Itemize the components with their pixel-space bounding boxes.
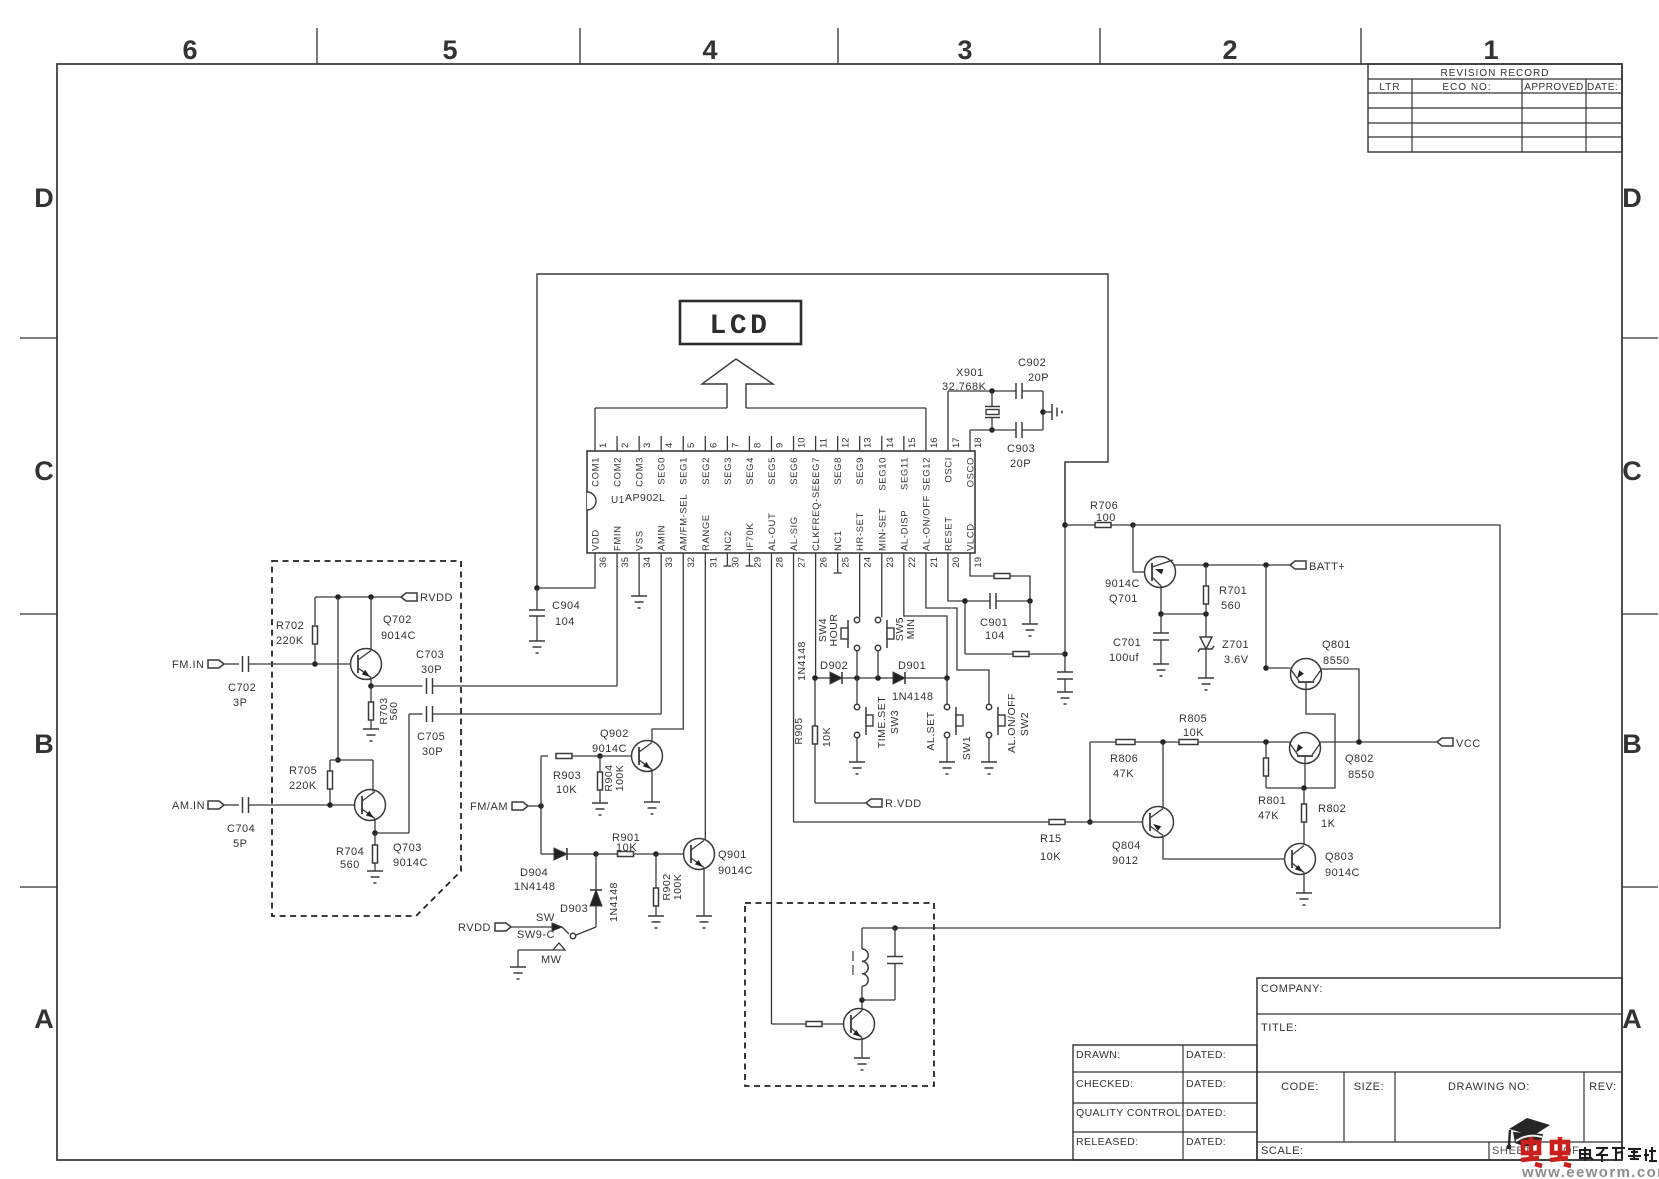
wire Q701 emitter node xyxy=(1160,586,1162,614)
switch SW5 MIN xyxy=(875,617,880,622)
svg-text:BATT+: BATT+ xyxy=(1309,561,1345,573)
svg-text:220K: 220K xyxy=(289,780,317,792)
U1 top pin 4 SEG0 xyxy=(660,436,662,451)
svg-text:AL.ON/OFF: AL.ON/OFF xyxy=(1006,693,1018,753)
svg-text:VDD: VDD xyxy=(591,529,602,551)
svg-text:RANGE: RANGE xyxy=(701,514,712,551)
U1 top pin 6 SEG2 xyxy=(704,436,706,451)
capacitor C701 xyxy=(1160,614,1162,633)
svg-text:10K: 10K xyxy=(821,727,833,747)
svg-text:2: 2 xyxy=(620,443,631,448)
svg-text:12: 12 xyxy=(841,437,852,448)
svg-text:FM/AM: FM/AM xyxy=(470,801,508,813)
node R801-R802-Q802-Q801 xyxy=(1301,785,1307,791)
resistor R805 xyxy=(1179,740,1198,745)
wire VCC left end to Q804 base node xyxy=(1089,742,1091,822)
svg-text:31: 31 xyxy=(708,557,719,568)
capacitor C902 xyxy=(1015,383,1017,399)
svg-text:R905: R905 xyxy=(793,717,805,744)
wire SW5 to D901 node xyxy=(877,651,879,678)
svg-text:30P: 30P xyxy=(421,664,442,676)
wire Q804 collector xyxy=(1162,742,1164,809)
svg-text:9014C: 9014C xyxy=(1105,578,1140,590)
svg-text:C704: C704 xyxy=(227,823,255,835)
svg-text:APPROVED: APPROVED xyxy=(1524,82,1584,93)
svg-text:NC2: NC2 xyxy=(723,530,734,551)
capacitor at VLCD net xyxy=(1057,671,1073,673)
svg-text:SEG0: SEG0 xyxy=(657,457,668,485)
capacitor C704 xyxy=(224,804,239,806)
svg-text:5P: 5P xyxy=(233,838,247,850)
svg-text:AL.SET: AL.SET xyxy=(925,711,937,750)
transistor Q701 9014C xyxy=(1132,525,1134,572)
svg-text:RELEASED:: RELEASED: xyxy=(1076,1136,1139,1148)
switch SW4 HOUR xyxy=(854,617,859,622)
resistor R706 xyxy=(1065,524,1095,526)
LCD arrow xyxy=(702,359,773,408)
wire oscillator emitter xyxy=(861,1038,863,1059)
svg-text:100K: 100K xyxy=(672,874,684,901)
terminal R.VDD xyxy=(815,802,866,804)
terminal RVDD top xyxy=(401,593,417,601)
wire BATT+ line xyxy=(1173,564,1290,566)
wire LCD bus xyxy=(595,407,727,409)
svg-text:DRAWN:: DRAWN: xyxy=(1076,1049,1121,1061)
svg-text:33: 33 xyxy=(664,557,675,568)
wire Q702 emitter node xyxy=(370,678,372,687)
svg-text:AM/FM-SEL: AM/FM-SEL xyxy=(679,494,690,551)
wire pin24 HR-SET to SW4 xyxy=(859,553,861,617)
resistor R901 xyxy=(596,853,617,855)
svg-text:1: 1 xyxy=(598,443,609,448)
transistor Q703 9014C xyxy=(355,790,386,821)
capacitor C703 xyxy=(371,685,423,687)
svg-text:8: 8 xyxy=(752,443,763,448)
svg-text:2: 2 xyxy=(1222,35,1237,65)
switch MW contact xyxy=(553,943,565,950)
U1 top pin 13 SEG9 xyxy=(859,436,861,451)
svg-text:9012: 9012 xyxy=(1112,855,1138,867)
wire Q803 emitter xyxy=(1303,873,1305,894)
svg-text:AL-DISP: AL-DISP xyxy=(899,510,910,551)
resistor R701 xyxy=(1205,565,1207,586)
wire Q702 collector xyxy=(370,597,372,651)
svg-text:R802: R802 xyxy=(1318,803,1346,815)
svg-text:30: 30 xyxy=(730,557,741,568)
svg-text:D903: D903 xyxy=(560,903,588,915)
wire Q804 emitter to Q803 base xyxy=(1163,836,1285,860)
svg-text:DATED:: DATED: xyxy=(1186,1049,1226,1061)
switch SW2 AL.ON/OFF xyxy=(986,704,991,709)
svg-text:15: 15 xyxy=(907,437,918,448)
svg-text:3.6V: 3.6V xyxy=(1224,654,1249,666)
svg-text:AP902L: AP902L xyxy=(625,492,665,504)
svg-text:104: 104 xyxy=(555,616,575,628)
U1 top pin 7 SEG3 xyxy=(726,436,728,451)
diode D901 1N4148 xyxy=(857,677,893,679)
ground below Z701 xyxy=(1198,677,1214,679)
transistor Q801 8550 xyxy=(1291,659,1322,690)
svg-text:R706: R706 xyxy=(1090,500,1118,512)
svg-text:104: 104 xyxy=(985,630,1005,642)
capacitor C702 xyxy=(224,663,239,665)
U1 top pin 15 SEG11 xyxy=(903,436,905,451)
svg-text:9014C: 9014C xyxy=(718,865,753,877)
svg-text:MIN-SET: MIN-SET xyxy=(877,508,888,551)
svg-text:9014C: 9014C xyxy=(381,630,416,642)
node Q702 base xyxy=(312,661,318,667)
svg-text:D: D xyxy=(34,183,54,213)
wire pin32 AM/FM-SEL to Q902 collector xyxy=(652,553,683,743)
svg-text:CHECKED:: CHECKED: xyxy=(1076,1078,1133,1090)
resistor R905 xyxy=(814,678,816,727)
resistor R902 xyxy=(655,854,657,888)
svg-text:Q902: Q902 xyxy=(600,728,629,740)
ground below Q901 xyxy=(696,915,712,917)
resistor R801 xyxy=(1265,742,1267,758)
svg-text:SEG2: SEG2 xyxy=(701,457,712,485)
svg-text:SEG11: SEG11 xyxy=(899,457,910,490)
svg-text:3: 3 xyxy=(957,35,972,65)
wire Q801 right lead to VCC xyxy=(1322,669,1360,742)
ground below SW1 xyxy=(939,761,955,763)
resistor R15 xyxy=(1049,820,1065,825)
svg-text:SCALE:: SCALE: xyxy=(1261,1145,1304,1157)
U1 top pin 14 SEG10 xyxy=(881,436,883,451)
svg-text:1K: 1K xyxy=(1321,818,1336,830)
svg-text:Q702: Q702 xyxy=(383,614,412,626)
wire R15 to Q804 base xyxy=(1065,821,1090,823)
resistor oscillator base xyxy=(806,1022,822,1027)
svg-text:VLCD: VLCD xyxy=(966,523,977,551)
capacitor oscillator tank xyxy=(892,925,898,931)
svg-text:FM.IN: FM.IN xyxy=(172,659,204,671)
svg-text:TITLE:: TITLE: xyxy=(1261,1022,1298,1034)
wire pin36 VDD xyxy=(537,553,595,588)
svg-text:3P: 3P xyxy=(233,697,247,709)
node R905-D902 xyxy=(812,675,818,681)
svg-text:SEG8: SEG8 xyxy=(833,457,844,485)
svg-text:10K: 10K xyxy=(556,784,577,796)
resistor R904 xyxy=(599,756,601,772)
svg-text:Q703: Q703 xyxy=(393,842,422,854)
svg-text:AL-OUT: AL-OUT xyxy=(767,513,778,551)
svg-text:TIME.SET: TIME.SET xyxy=(876,696,888,749)
svg-text:8550: 8550 xyxy=(1323,655,1349,667)
svg-text:B: B xyxy=(1622,729,1642,759)
svg-text:9: 9 xyxy=(774,443,785,448)
svg-text:5: 5 xyxy=(442,35,457,65)
svg-text:6: 6 xyxy=(182,35,197,65)
U1 top pin 5 SEG1 xyxy=(682,436,684,451)
wire Q902 emitter xyxy=(651,770,653,803)
svg-text:C702: C702 xyxy=(228,682,256,694)
svg-text:AL-SIG: AL-SIG xyxy=(789,516,800,551)
svg-text:35: 35 xyxy=(620,557,631,568)
svg-text:9014C: 9014C xyxy=(393,857,428,869)
svg-text:32: 32 xyxy=(686,557,697,568)
capacitor C901 xyxy=(989,593,991,609)
node D904-D903-R901 xyxy=(593,851,599,857)
svg-text:COMPANY:: COMPANY: xyxy=(1261,983,1323,995)
diode D902 1N4148 xyxy=(815,677,830,679)
svg-text:B: B xyxy=(34,729,54,759)
LCD block xyxy=(680,301,801,344)
node Q703 base xyxy=(327,802,333,808)
resistor R802 xyxy=(1303,788,1305,804)
svg-text:14: 14 xyxy=(885,437,896,448)
svg-text:20P: 20P xyxy=(1028,372,1049,384)
svg-text:SW9-C: SW9-C xyxy=(517,929,555,941)
wire pin28 AL-OUT to oscillator xyxy=(770,553,772,1024)
pin25 NC1 stub xyxy=(837,553,839,573)
ground below MW xyxy=(510,966,526,968)
svg-text:220K: 220K xyxy=(276,635,304,647)
svg-text:C701: C701 xyxy=(1113,637,1141,649)
svg-text:R801: R801 xyxy=(1258,795,1286,807)
ground pin34 VSS xyxy=(638,553,640,596)
wire Q802 bottom lead xyxy=(1304,756,1306,788)
svg-text:7: 7 xyxy=(730,443,741,448)
transistor Q902 9014C xyxy=(632,741,663,772)
resistor R703 xyxy=(370,686,372,702)
wire VCC line xyxy=(1090,741,1437,743)
svg-text:C: C xyxy=(34,456,54,486)
ground below SW2 xyxy=(981,761,997,763)
wire Q703 collector xyxy=(372,760,374,792)
svg-text:C: C xyxy=(1622,456,1642,486)
svg-text:DATED:: DATED: xyxy=(1186,1107,1226,1119)
svg-text:SW1: SW1 xyxy=(961,736,973,760)
transistor Q802 8550 xyxy=(1290,733,1321,764)
transistor Q901 9014C xyxy=(684,839,715,870)
capacitor C903 xyxy=(1015,422,1017,438)
transistor Q803 9014C xyxy=(1285,844,1316,875)
svg-text:SEG12: SEG12 xyxy=(921,457,932,491)
svg-text:NC1: NC1 xyxy=(833,530,844,551)
svg-text:R903: R903 xyxy=(553,770,581,782)
svg-text:R806: R806 xyxy=(1110,753,1138,765)
svg-text:Q901: Q901 xyxy=(718,849,747,861)
svg-text:SEG5: SEG5 xyxy=(767,457,778,485)
svg-text:LTR: LTR xyxy=(1379,82,1400,93)
wire pin27 AL-SIG to R15 xyxy=(793,553,795,822)
svg-text:47K: 47K xyxy=(1113,768,1134,780)
ground at oscillator xyxy=(1043,411,1052,413)
wire pin18 OSCO xyxy=(969,430,971,451)
svg-text:21: 21 xyxy=(929,557,940,568)
wire pin26 CLKFREQ-SEL to D902 xyxy=(815,553,817,678)
resistor on VLCD line xyxy=(994,574,1010,579)
svg-text:HOUR: HOUR xyxy=(828,614,840,647)
svg-text:1: 1 xyxy=(1483,35,1498,65)
svg-text:19: 19 xyxy=(973,557,984,568)
svg-text:10: 10 xyxy=(797,437,808,448)
wire pin33 AMIN to C705 xyxy=(660,553,662,714)
svg-text:RVDD: RVDD xyxy=(458,922,491,934)
svg-text:1N4148: 1N4148 xyxy=(514,881,556,893)
transistor oscillator xyxy=(844,1009,875,1040)
svg-text:SEG3: SEG3 xyxy=(723,457,734,485)
svg-text:www.eeworm.com: www.eeworm.com xyxy=(1521,1164,1659,1179)
svg-text:22: 22 xyxy=(907,557,918,568)
svg-text:9014C: 9014C xyxy=(1325,867,1360,879)
svg-text:1N4148: 1N4148 xyxy=(892,691,934,703)
U1 top pin 3 COM3 xyxy=(638,436,640,451)
ground below R902 xyxy=(648,915,664,917)
svg-text:10K: 10K xyxy=(1040,851,1061,863)
svg-text:AMIN: AMIN xyxy=(657,525,668,551)
svg-text:LCD: LCD xyxy=(710,311,771,342)
svg-text:20P: 20P xyxy=(1010,458,1031,470)
terminal VCC xyxy=(1437,738,1453,746)
capacitor C705 xyxy=(375,832,409,834)
ground right of C901 xyxy=(1029,601,1031,624)
terminal BATT+ xyxy=(1290,561,1306,569)
svg-text:24: 24 xyxy=(863,557,874,568)
ground below oscillator xyxy=(854,1057,870,1059)
svg-text:R.VDD: R.VDD xyxy=(885,798,922,810)
svg-text:SEG9: SEG9 xyxy=(855,457,866,485)
svg-text:10K: 10K xyxy=(1183,727,1204,739)
svg-text:VSS: VSS xyxy=(635,530,646,551)
svg-text:DATED:: DATED: xyxy=(1186,1136,1226,1148)
wire pin31 RANGE to Q901 collector xyxy=(704,553,706,841)
svg-text:R15: R15 xyxy=(1040,833,1062,845)
svg-text:Q701: Q701 xyxy=(1109,593,1138,605)
svg-text:C904: C904 xyxy=(552,600,580,612)
pin30 NC2 stub xyxy=(726,553,728,566)
svg-text:18: 18 xyxy=(973,437,984,448)
svg-text:C703: C703 xyxy=(416,649,444,661)
svg-text:ECO NO:: ECO NO: xyxy=(1442,82,1491,93)
node Q902 base xyxy=(597,753,603,759)
svg-text:SEG1: SEG1 xyxy=(679,457,690,485)
node VDD junction at C904 xyxy=(534,585,540,591)
resistor R702 xyxy=(314,597,316,625)
svg-text:VCC: VCC xyxy=(1456,738,1481,750)
wire pin35 FMIN to C703 xyxy=(616,553,618,686)
svg-text:34: 34 xyxy=(642,557,653,568)
svg-text:17: 17 xyxy=(951,437,962,448)
svg-text:4: 4 xyxy=(702,35,717,65)
svg-text:100: 100 xyxy=(1096,512,1116,524)
ground below VLCD cap xyxy=(1057,691,1073,693)
dashed block FM-AM amplifier xyxy=(272,561,461,916)
switch SW3 TIME.SET xyxy=(856,678,858,704)
svg-text:DRAWING NO:: DRAWING NO: xyxy=(1448,1081,1530,1093)
svg-text:R805: R805 xyxy=(1179,713,1207,725)
wire VCC loop to oscillator tank xyxy=(895,525,1500,928)
switch SW1 AL.SET xyxy=(946,678,948,704)
ground below C904 xyxy=(529,640,545,642)
wire RVDD rail xyxy=(315,596,401,598)
svg-text:SW2: SW2 xyxy=(1019,712,1031,736)
ground below C701 xyxy=(1153,663,1169,665)
transistor Q702 9014C xyxy=(351,649,382,680)
svg-text:DATED:: DATED: xyxy=(1186,1078,1226,1090)
wire pin23 MIN-SET to SW5 xyxy=(881,553,883,617)
U1 top pin 11 SEG7 xyxy=(815,436,817,451)
svg-text:9014C: 9014C xyxy=(592,743,627,755)
svg-text:REV:: REV: xyxy=(1589,1081,1617,1093)
diode D904 1N4148 xyxy=(541,853,554,855)
wire BATT+ to Q801 xyxy=(1265,565,1267,668)
svg-text:1N4148: 1N4148 xyxy=(796,641,808,681)
wire oscillator collector xyxy=(861,1000,863,1011)
ground below R704 xyxy=(367,870,383,872)
svg-text:DATE:: DATE: xyxy=(1587,82,1618,93)
svg-text:11: 11 xyxy=(819,438,830,448)
svg-text:CLKFREQ-SEL: CLKFREQ-SEL xyxy=(811,478,822,551)
svg-text:COM2: COM2 xyxy=(613,457,624,487)
svg-text:QUALITY CONTROL:: QUALITY CONTROL: xyxy=(1076,1107,1184,1119)
svg-text:4: 4 xyxy=(664,443,675,448)
svg-text:Q801: Q801 xyxy=(1322,639,1351,651)
ground below R904 xyxy=(592,802,608,804)
svg-text:RVDD: RVDD xyxy=(420,592,453,604)
wire pin19 VLCD xyxy=(970,553,994,576)
ground below Q902 xyxy=(644,801,660,803)
svg-text:D902: D902 xyxy=(820,660,848,672)
svg-text:COM1: COM1 xyxy=(591,457,602,487)
svg-text:100uf: 100uf xyxy=(1109,652,1139,664)
svg-text:SEG4: SEG4 xyxy=(745,457,756,485)
U1 top pin 2 COM2 xyxy=(616,436,618,451)
crystal X901 xyxy=(947,391,949,451)
svg-text:Z701: Z701 xyxy=(1222,639,1249,651)
wire VLCD net down right side xyxy=(1064,462,1066,672)
svg-text:MIN: MIN xyxy=(905,619,917,640)
U1 top pin 12 SEG8 xyxy=(837,436,839,451)
svg-text:SW: SW xyxy=(536,912,555,924)
svg-text:SW3: SW3 xyxy=(889,710,901,734)
svg-text:RESET: RESET xyxy=(943,516,954,551)
resistor R705 xyxy=(337,597,339,760)
svg-text:C705: C705 xyxy=(417,731,445,743)
svg-text:COM3: COM3 xyxy=(635,457,646,487)
svg-text:560: 560 xyxy=(1221,600,1241,612)
svg-text:560: 560 xyxy=(388,701,400,720)
U1 top pin 9 SEG5 xyxy=(770,436,772,451)
resistor R806 xyxy=(1116,740,1135,745)
svg-text:20: 20 xyxy=(951,557,962,568)
svg-text:AL-ON/OFF: AL-ON/OFF xyxy=(921,495,932,551)
svg-text:IF70K: IF70K xyxy=(745,523,756,551)
wire Q703 emitter node xyxy=(374,819,376,834)
svg-text:SEG6: SEG6 xyxy=(789,457,800,485)
svg-text:R705: R705 xyxy=(289,765,317,777)
svg-text:R702: R702 xyxy=(276,620,304,632)
svg-text:A: A xyxy=(34,1004,54,1034)
svg-text:Q804: Q804 xyxy=(1112,840,1141,852)
svg-text:R704: R704 xyxy=(336,846,364,858)
svg-text:OSCO: OSCO xyxy=(966,457,977,487)
svg-text:Q803: Q803 xyxy=(1325,851,1354,863)
svg-text:10K: 10K xyxy=(616,842,637,854)
ground below R703 xyxy=(363,728,379,730)
ground below Q803 xyxy=(1296,892,1312,894)
wire pin20 RESET to C901 xyxy=(948,553,990,601)
svg-text:FMIN: FMIN xyxy=(613,525,624,551)
node Q901 base xyxy=(653,851,659,857)
svg-text:1N4148: 1N4148 xyxy=(608,882,620,922)
wire Q801 bottom lead xyxy=(1304,682,1335,788)
U1 top pin 10 SEG6 xyxy=(793,436,795,451)
wire Q901 emitter xyxy=(703,868,705,917)
svg-text:25: 25 xyxy=(841,557,852,568)
svg-text:100K: 100K xyxy=(614,765,626,792)
